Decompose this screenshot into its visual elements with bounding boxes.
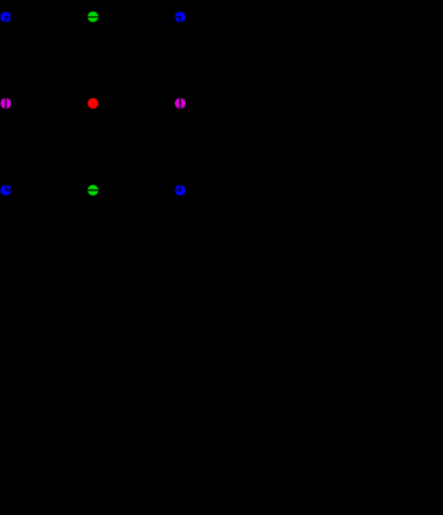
site B3 (bottom-left corner, blue) bbox=[1, 185, 12, 196]
site G1 (top edge midpoint, green) bbox=[88, 11, 99, 22]
site B2 (top-right corner, blue) bbox=[175, 12, 186, 23]
site R1 (center, red, drawn on top) bbox=[88, 98, 99, 109]
site M1 (left edge midpoint, magenta) bbox=[1, 98, 12, 109]
unit-cell box outline (black, drawn over the edge sites) bbox=[6, 17, 180, 190]
site B4 (bottom-right corner, blue) bbox=[175, 185, 186, 196]
site B1 (top-left corner, blue) bbox=[1, 12, 12, 23]
site M2 (right edge midpoint, magenta) bbox=[175, 98, 186, 109]
site G2 (bottom edge midpoint, green) bbox=[88, 185, 99, 196]
